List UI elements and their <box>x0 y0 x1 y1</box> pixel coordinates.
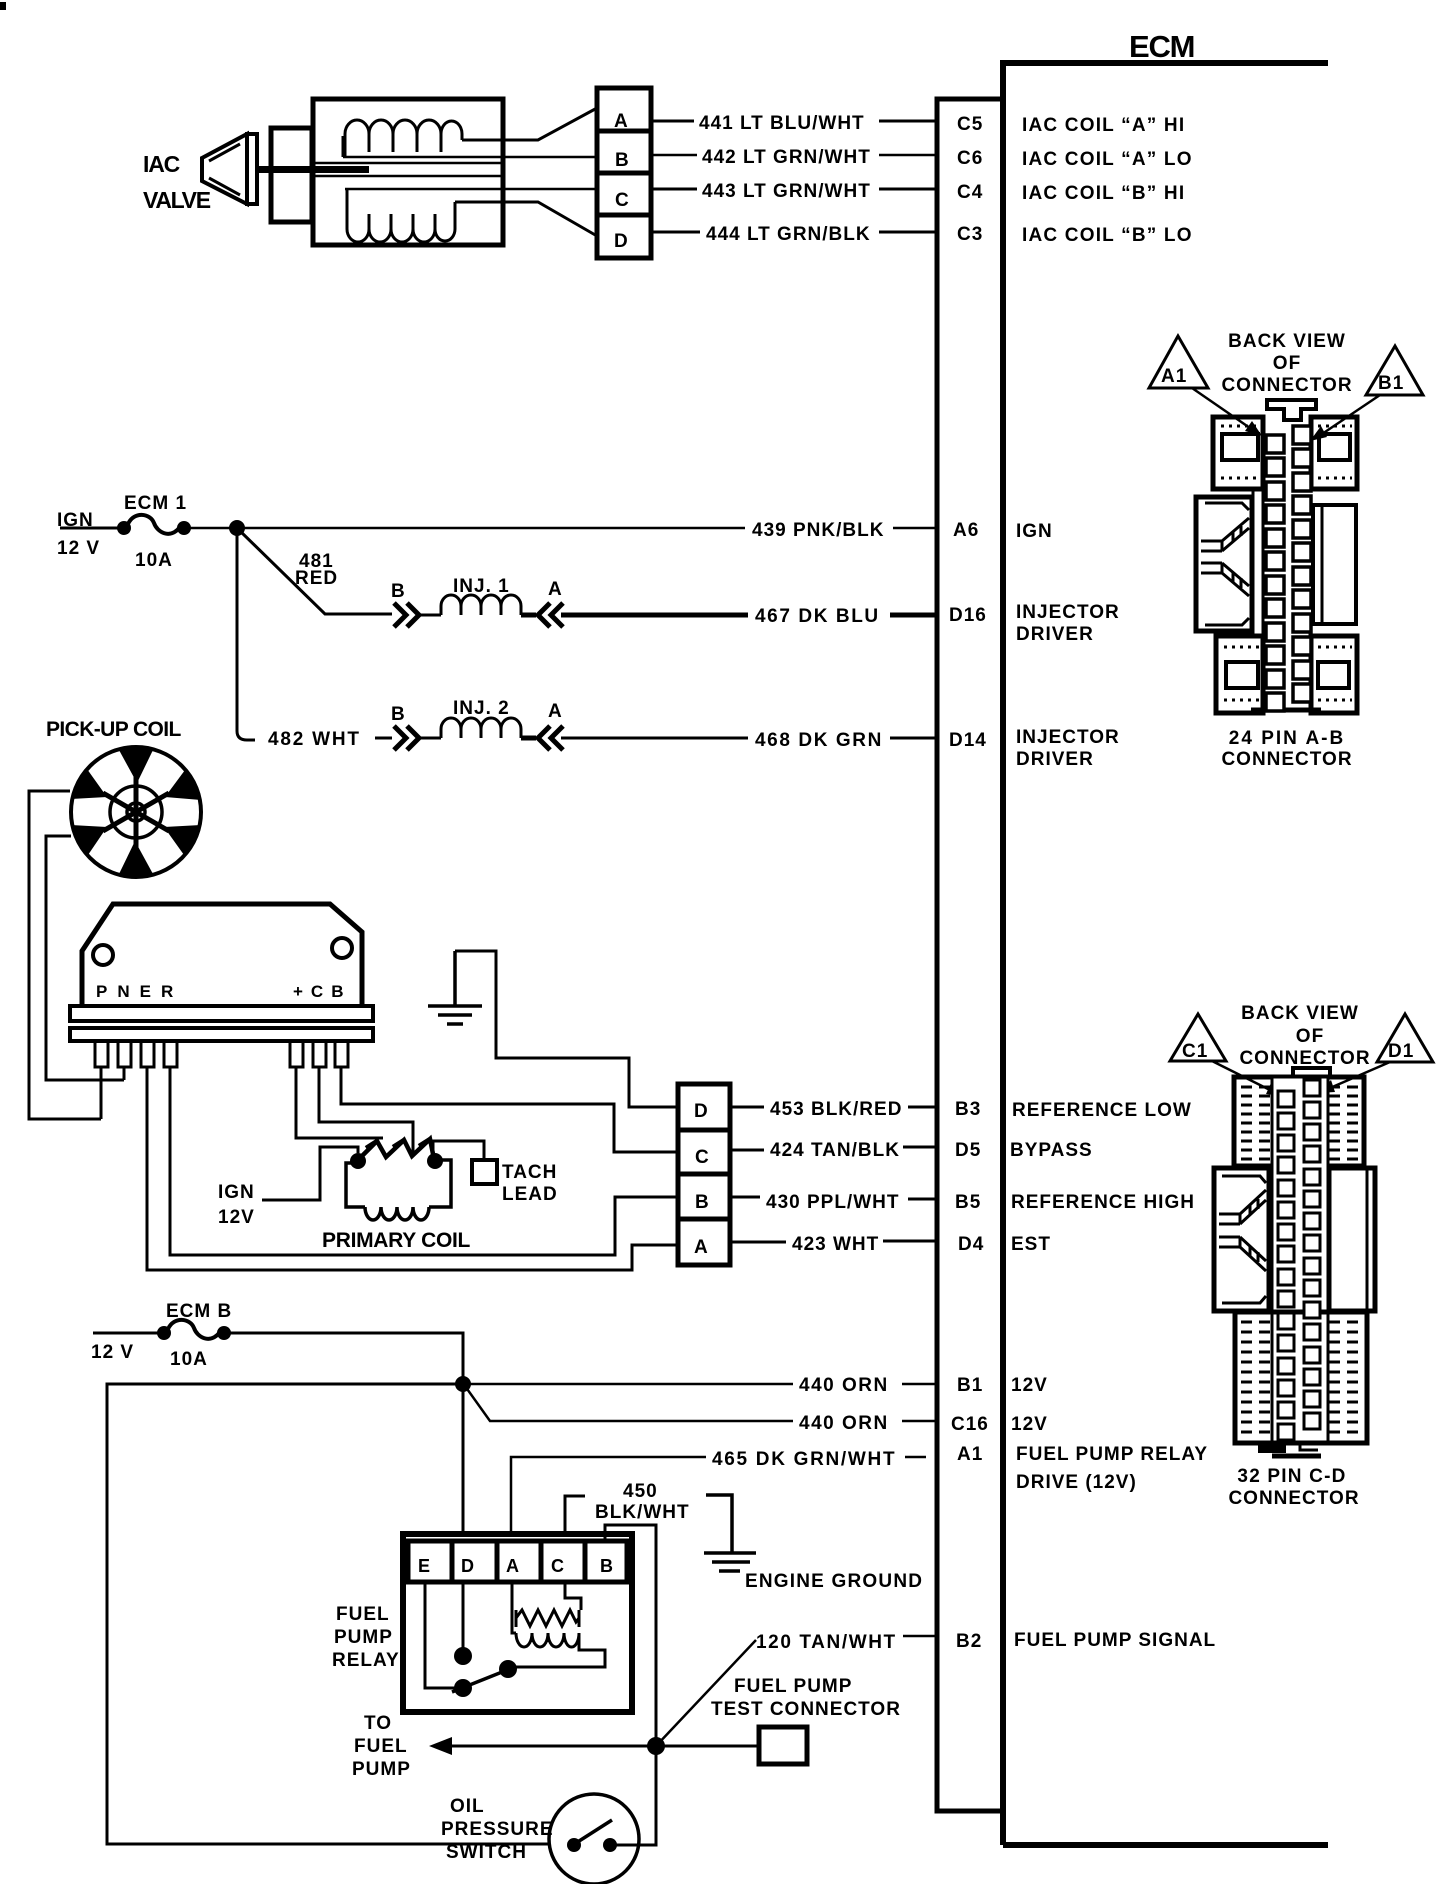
svg-text:PUMP: PUMP <box>334 1627 393 1648</box>
svg-text:12V: 12V <box>218 1207 255 1228</box>
svg-text:BACK VIEW: BACK VIEW <box>1228 331 1346 352</box>
engine ground symbol <box>704 1495 756 1571</box>
svg-text:TO: TO <box>364 1713 392 1734</box>
relay C internal wire <box>565 1582 581 1610</box>
connector CD middle-right block <box>1329 1168 1375 1311</box>
svg-text:REFERENCE LOW: REFERENCE LOW <box>1012 1100 1192 1121</box>
wire fuse to junction and on to pin A6 <box>184 527 937 530</box>
wire pick-up coil lead 1 <box>29 791 101 1119</box>
IAC body center slit lines <box>313 163 503 176</box>
svg-text:RED: RED <box>295 568 338 589</box>
wire 453 <box>730 1106 937 1109</box>
svg-text:PICK-UP COIL: PICK-UP COIL <box>46 718 182 741</box>
svg-text:C: C <box>695 1147 710 1168</box>
svg-text:A1: A1 <box>1161 366 1187 387</box>
svg-text:10A: 10A <box>135 550 173 571</box>
svg-text:423 WHT: 423 WHT <box>792 1234 879 1255</box>
svg-text:B3: B3 <box>955 1099 981 1120</box>
relay contact dot lower <box>454 1679 472 1697</box>
ECM pin column <box>937 99 1003 1811</box>
wire pin N down <box>123 1067 126 1080</box>
relay cell B <box>585 1541 627 1582</box>
module pin R <box>164 1041 177 1067</box>
oil switch blade <box>576 1820 612 1843</box>
callout triangle D1 <box>1377 1014 1433 1062</box>
svg-text:12V: 12V <box>1011 1414 1048 1435</box>
module pin E <box>141 1041 154 1067</box>
svg-text:B: B <box>695 1192 710 1213</box>
wire 12V to fuse2 <box>93 1332 162 1335</box>
wire 482 vertical from junction <box>237 528 255 740</box>
relay C cell wire 450 up <box>565 1496 585 1534</box>
svg-text:C: C <box>551 1556 565 1576</box>
ignition connector block A <box>678 1219 730 1265</box>
svg-text:D4: D4 <box>958 1234 984 1255</box>
wire 424 <box>730 1147 937 1150</box>
svg-text:+CB: +CB <box>293 982 351 1001</box>
svg-text:444 LT GRN/BLK: 444 LT GRN/BLK <box>706 224 871 245</box>
svg-text:CONNECTOR: CONNECTOR <box>1221 375 1352 396</box>
chevron B inj2 <box>394 726 419 750</box>
relay internal D contact wire <box>462 1582 465 1648</box>
svg-text:OF: OF <box>1273 353 1301 374</box>
ignition connector block D <box>678 1084 730 1130</box>
svg-text:VALVE: VALVE <box>143 187 211 213</box>
relay coil to armature wire <box>516 1633 605 1667</box>
relay cell E <box>408 1541 452 1582</box>
IAC valve pintle shaft <box>257 166 369 173</box>
IAC connector block C <box>597 173 651 215</box>
svg-text:C3: C3 <box>957 224 983 245</box>
svg-text:A6: A6 <box>953 520 979 541</box>
svg-text:A1: A1 <box>957 1444 983 1465</box>
module pin P <box>95 1041 108 1067</box>
callout triangle C1 <box>1170 1014 1226 1061</box>
node junction ECMB <box>455 1376 471 1392</box>
module pin B <box>335 1041 348 1067</box>
svg-text:10A: 10A <box>170 1349 208 1370</box>
wire 423 <box>730 1241 937 1242</box>
svg-text:A: A <box>506 1556 520 1576</box>
connector CD bottom foot <box>1258 1443 1286 1453</box>
module mounting hole right <box>332 938 352 958</box>
svg-text:B: B <box>391 704 406 725</box>
svg-text:B2: B2 <box>956 1631 982 1652</box>
wire pin + to primary coil <box>296 1067 383 1138</box>
svg-text:PUMP: PUMP <box>352 1759 411 1780</box>
svg-text:IAC COIL “B” HI: IAC COIL “B” HI <box>1022 183 1185 204</box>
pick-up coil symbol <box>71 747 201 877</box>
svg-text:B: B <box>615 150 630 171</box>
svg-text:INJ. 1: INJ. 1 <box>453 576 510 597</box>
fuel pump test connector box <box>759 1727 807 1764</box>
svg-text:C5: C5 <box>957 114 983 135</box>
svg-text:FUEL PUMP RELAY: FUEL PUMP RELAY <box>1016 1444 1208 1465</box>
TACH LEAD box <box>472 1160 497 1184</box>
svg-text:BYPASS: BYPASS <box>1010 1140 1093 1161</box>
module mounting hole left <box>93 945 113 965</box>
svg-text:439 PNK/BLK: 439 PNK/BLK <box>752 520 884 541</box>
wire to fuel pump arrow <box>440 1745 656 1748</box>
svg-text:ECM 1: ECM 1 <box>124 493 187 514</box>
svg-text:468 DK GRN: 468 DK GRN <box>755 730 883 751</box>
wire 465 DK GRN/WHT <box>511 1457 926 1534</box>
svg-text:PRESSURE: PRESSURE <box>441 1819 554 1840</box>
wire pick-up coil lead 2 <box>46 836 124 1080</box>
wire 467 thick <box>561 613 937 618</box>
svg-text:CONNECTOR: CONNECTOR <box>1228 1488 1359 1509</box>
svg-text:REFERENCE HIGH: REFERENCE HIGH <box>1011 1192 1195 1213</box>
svg-text:DRIVE (12V): DRIVE (12V) <box>1016 1472 1137 1493</box>
svg-text:INJECTOR: INJECTOR <box>1016 727 1120 748</box>
module pin plus <box>290 1041 303 1067</box>
svg-text:B: B <box>391 581 406 602</box>
svg-text:C4: C4 <box>957 182 983 203</box>
connector CD middle-left lock block <box>1214 1168 1269 1311</box>
IAC valve main body <box>313 99 503 245</box>
wire pin C to coil zigzag <box>319 1067 413 1155</box>
svg-text:C16: C16 <box>951 1414 989 1435</box>
connector AB lower-left cavity block <box>1216 636 1263 713</box>
callout triangle A1 <box>1149 336 1208 388</box>
fuse ECM B <box>157 1326 171 1340</box>
IAC valve cone <box>202 134 247 204</box>
callout triangle B1 <box>1366 346 1423 395</box>
6 rotor wedges <box>119 748 153 783</box>
svg-text:B5: B5 <box>955 1192 981 1213</box>
svg-text:CONNECTOR: CONNECTOR <box>1221 749 1352 770</box>
wire 481 RED diagonal <box>239 530 392 614</box>
svg-text:IGN: IGN <box>1016 521 1053 542</box>
svg-text:D5: D5 <box>955 1140 981 1161</box>
relay coil scallops <box>516 1633 579 1647</box>
connector AB bottom bar <box>1251 708 1321 713</box>
ignition module body <box>82 904 362 1004</box>
svg-text:FUEL: FUEL <box>336 1604 390 1625</box>
wire pin B to bypass C block <box>341 1067 678 1152</box>
svg-text:424 TAN/BLK: 424 TAN/BLK <box>770 1140 900 1161</box>
svg-text:FUEL PUMP: FUEL PUMP <box>734 1676 852 1697</box>
scan speck top-left corner <box>0 2 6 10</box>
svg-text:443 LT GRN/WHT: 443 LT GRN/WHT <box>702 181 871 202</box>
coil INJ2 <box>441 718 521 738</box>
svg-text:24 PIN A-B: 24 PIN A-B <box>1229 728 1345 749</box>
svg-text:SWITCH: SWITCH <box>446 1842 527 1863</box>
wire 441 <box>651 120 937 123</box>
svg-text:12 V: 12 V <box>57 538 100 559</box>
svg-text:441 LT BLU/WHT: 441 LT BLU/WHT <box>699 113 865 134</box>
svg-text:32 PIN C-D: 32 PIN C-D <box>1237 1466 1346 1487</box>
connector CD lower hatched block <box>1235 1312 1367 1443</box>
connector AB upper-left cavity block <box>1213 417 1263 489</box>
connector CD pin squares left column <box>1278 1091 1294 1440</box>
connector AB lower-right cavity block <box>1311 636 1357 713</box>
svg-text:IGN: IGN <box>218 1182 255 1203</box>
relay armature blade <box>452 1668 512 1692</box>
wire IGN 12V to coil <box>262 1147 358 1200</box>
fuse ECM 1 <box>117 521 131 535</box>
svg-text:440 ORN: 440 ORN <box>799 1375 889 1396</box>
oil switch contact right <box>603 1838 617 1852</box>
relay contact dot upper <box>454 1647 472 1665</box>
node primary coil left <box>350 1153 366 1169</box>
wire pin P down <box>100 1067 103 1119</box>
ECM box outline <box>1003 60 1328 1845</box>
svg-text:A: A <box>548 579 563 600</box>
connector AB top key <box>1267 400 1316 420</box>
wire IAC coil B lo to pin D <box>455 202 597 236</box>
svg-text:INJECTOR: INJECTOR <box>1016 602 1120 623</box>
wire 442 <box>651 154 937 157</box>
svg-text:A: A <box>694 1237 709 1258</box>
ignition connector block B <box>678 1174 730 1219</box>
oil pressure switch circle <box>549 1794 639 1884</box>
svg-text:465 DK GRN/WHT: 465 DK GRN/WHT <box>712 1449 896 1470</box>
svg-text:IAC COIL “B” LO: IAC COIL “B” LO <box>1022 225 1193 246</box>
svg-text:453 BLK/RED: 453 BLK/RED <box>770 1099 902 1120</box>
wire tach lead <box>433 1141 484 1160</box>
primary coil breaker zigzag <box>358 1139 434 1160</box>
wire 468 <box>561 737 937 740</box>
relay B cell wire to oil switch <box>605 1525 656 1738</box>
wire pin R to REF HIGH path <box>170 1067 678 1255</box>
relay cell D <box>452 1541 497 1582</box>
svg-text:OF: OF <box>1296 1026 1324 1047</box>
svg-text:EST: EST <box>1011 1234 1051 1255</box>
chevron A inj2 <box>521 726 563 750</box>
svg-text:482 WHT: 482 WHT <box>268 729 361 750</box>
ground symbol near module <box>428 951 482 1024</box>
oil switch contact left <box>567 1838 581 1852</box>
connector AB left-middle lock block <box>1196 497 1252 631</box>
connector CD upper hatched block <box>1234 1077 1364 1166</box>
svg-text:ENGINE GROUND: ENGINE GROUND <box>745 1571 923 1592</box>
svg-text:INJ. 2: INJ. 2 <box>453 698 510 719</box>
svg-text:C6: C6 <box>957 148 983 169</box>
wire 482 to chevron <box>375 737 392 740</box>
module pin N <box>118 1041 131 1067</box>
svg-text:DRIVER: DRIVER <box>1016 749 1094 770</box>
svg-text:440 ORN: 440 ORN <box>799 1413 889 1434</box>
svg-text:450: 450 <box>623 1481 658 1502</box>
relay E internal wire <box>425 1582 455 1688</box>
svg-text:12V: 12V <box>1011 1375 1048 1396</box>
IAC valve body small block <box>271 128 312 222</box>
svg-text:ECM: ECM <box>1129 29 1194 64</box>
svg-text:D: D <box>614 231 629 252</box>
svg-text:RELAY: RELAY <box>332 1650 400 1671</box>
connector CD top tab <box>1293 1068 1330 1077</box>
wire 120 TAN/WHT diagonal <box>656 1636 937 1746</box>
node fuel pump junction <box>647 1737 665 1755</box>
wire left big loop <box>107 1384 550 1844</box>
connector AB upper-right cavity block <box>1311 417 1357 489</box>
connector AB pin squares left column <box>1266 435 1284 711</box>
wire IGN to fuse <box>60 527 122 530</box>
chevron B inj1 <box>394 603 419 627</box>
chevron A inj1 <box>521 603 563 627</box>
svg-text:430 PPL/WHT: 430 PPL/WHT <box>766 1192 899 1213</box>
coil INJ1 <box>441 595 521 615</box>
module base plate bars <box>70 1006 373 1021</box>
connector AB pin squares right column <box>1293 426 1311 702</box>
relay coil resistor zigzag <box>516 1610 579 1627</box>
wire IAC coil B hi to pin C <box>345 188 597 191</box>
wire 443 <box>651 188 937 191</box>
wire pin E to EST path <box>147 1067 678 1270</box>
IAC connector block B <box>597 131 651 173</box>
svg-text:D: D <box>694 1101 709 1122</box>
svg-text:FUEL PUMP SIGNAL: FUEL PUMP SIGNAL <box>1014 1630 1216 1651</box>
svg-text:TACH: TACH <box>502 1162 557 1183</box>
wire ground to D block (reference low) <box>455 951 678 1107</box>
svg-text:C1: C1 <box>1182 1041 1208 1062</box>
wire IAC coil A hi to pin A <box>462 108 597 140</box>
IAC connector block D <box>597 215 651 258</box>
connector AB left strip <box>1253 489 1263 636</box>
wire junction to test connector <box>656 1745 759 1748</box>
primary coil winding scallops <box>365 1207 429 1220</box>
IAC coil A (top winding) <box>345 120 462 157</box>
svg-text:D1: D1 <box>1388 1041 1414 1062</box>
svg-text:A: A <box>548 701 563 722</box>
fuel pump relay box <box>403 1534 632 1712</box>
svg-text:CONNECTOR: CONNECTOR <box>1239 1048 1370 1069</box>
wire 430 <box>730 1197 937 1199</box>
svg-text:120 TAN/WHT: 120 TAN/WHT <box>756 1632 897 1653</box>
wire IAC coil A lo to pin B <box>343 156 597 159</box>
svg-text:B: B <box>600 1556 614 1576</box>
connector CD pin squares right column <box>1304 1080 1320 1429</box>
svg-text:BLK/WHT: BLK/WHT <box>595 1502 690 1523</box>
IAC coil B (bottom winding) <box>347 202 455 242</box>
svg-text:B1: B1 <box>957 1375 983 1396</box>
svg-text:467 DK BLU: 467 DK BLU <box>755 606 880 627</box>
svg-text:IAC COIL “A” HI: IAC COIL “A” HI <box>1022 115 1185 136</box>
ignition connector block C <box>678 1130 730 1174</box>
svg-text:D: D <box>461 1556 475 1576</box>
svg-text:IAC COIL “A” LO: IAC COIL “A” LO <box>1022 149 1193 170</box>
node primary coil right <box>427 1153 443 1169</box>
svg-text:PNER: PNER <box>96 982 183 1001</box>
connector AB right-middle block <box>1313 505 1356 624</box>
svg-text:D14: D14 <box>949 730 987 751</box>
wire 444 <box>651 231 937 234</box>
svg-text:C: C <box>615 190 630 211</box>
wire fuse2 to junction <box>224 1333 463 1384</box>
svg-text:IAC: IAC <box>143 151 180 177</box>
primary coil body <box>346 1160 451 1207</box>
svg-text:E: E <box>418 1556 431 1576</box>
connector CD central channel <box>1272 1077 1328 1443</box>
wire D cell to junction <box>462 1384 465 1534</box>
svg-text:TEST CONNECTOR: TEST CONNECTOR <box>711 1699 901 1720</box>
relay cell C <box>541 1541 585 1582</box>
relay cell A <box>497 1541 541 1582</box>
svg-text:FUEL: FUEL <box>354 1736 408 1757</box>
svg-text:OIL: OIL <box>450 1796 485 1817</box>
svg-text:442 LT GRN/WHT: 442 LT GRN/WHT <box>702 147 871 168</box>
relay armature dot <box>499 1660 517 1678</box>
svg-text:BACK VIEW: BACK VIEW <box>1241 1003 1359 1024</box>
svg-text:12 V: 12 V <box>91 1342 134 1363</box>
wire C16 12V diagonal <box>465 1386 937 1421</box>
wire B1 12V <box>463 1383 937 1386</box>
svg-text:DRIVER: DRIVER <box>1016 624 1094 645</box>
module pin C <box>313 1041 326 1067</box>
svg-text:D16: D16 <box>949 605 987 626</box>
svg-text:LEAD: LEAD <box>502 1184 558 1205</box>
svg-text:B1: B1 <box>1378 373 1404 394</box>
svg-text:PRIMARY COIL: PRIMARY COIL <box>322 1229 471 1252</box>
relay A internal wire <box>512 1582 516 1633</box>
wire oil switch to junction riser <box>615 1754 656 1845</box>
IAC connector block A <box>597 88 651 131</box>
node junction ECM1 <box>229 520 245 536</box>
